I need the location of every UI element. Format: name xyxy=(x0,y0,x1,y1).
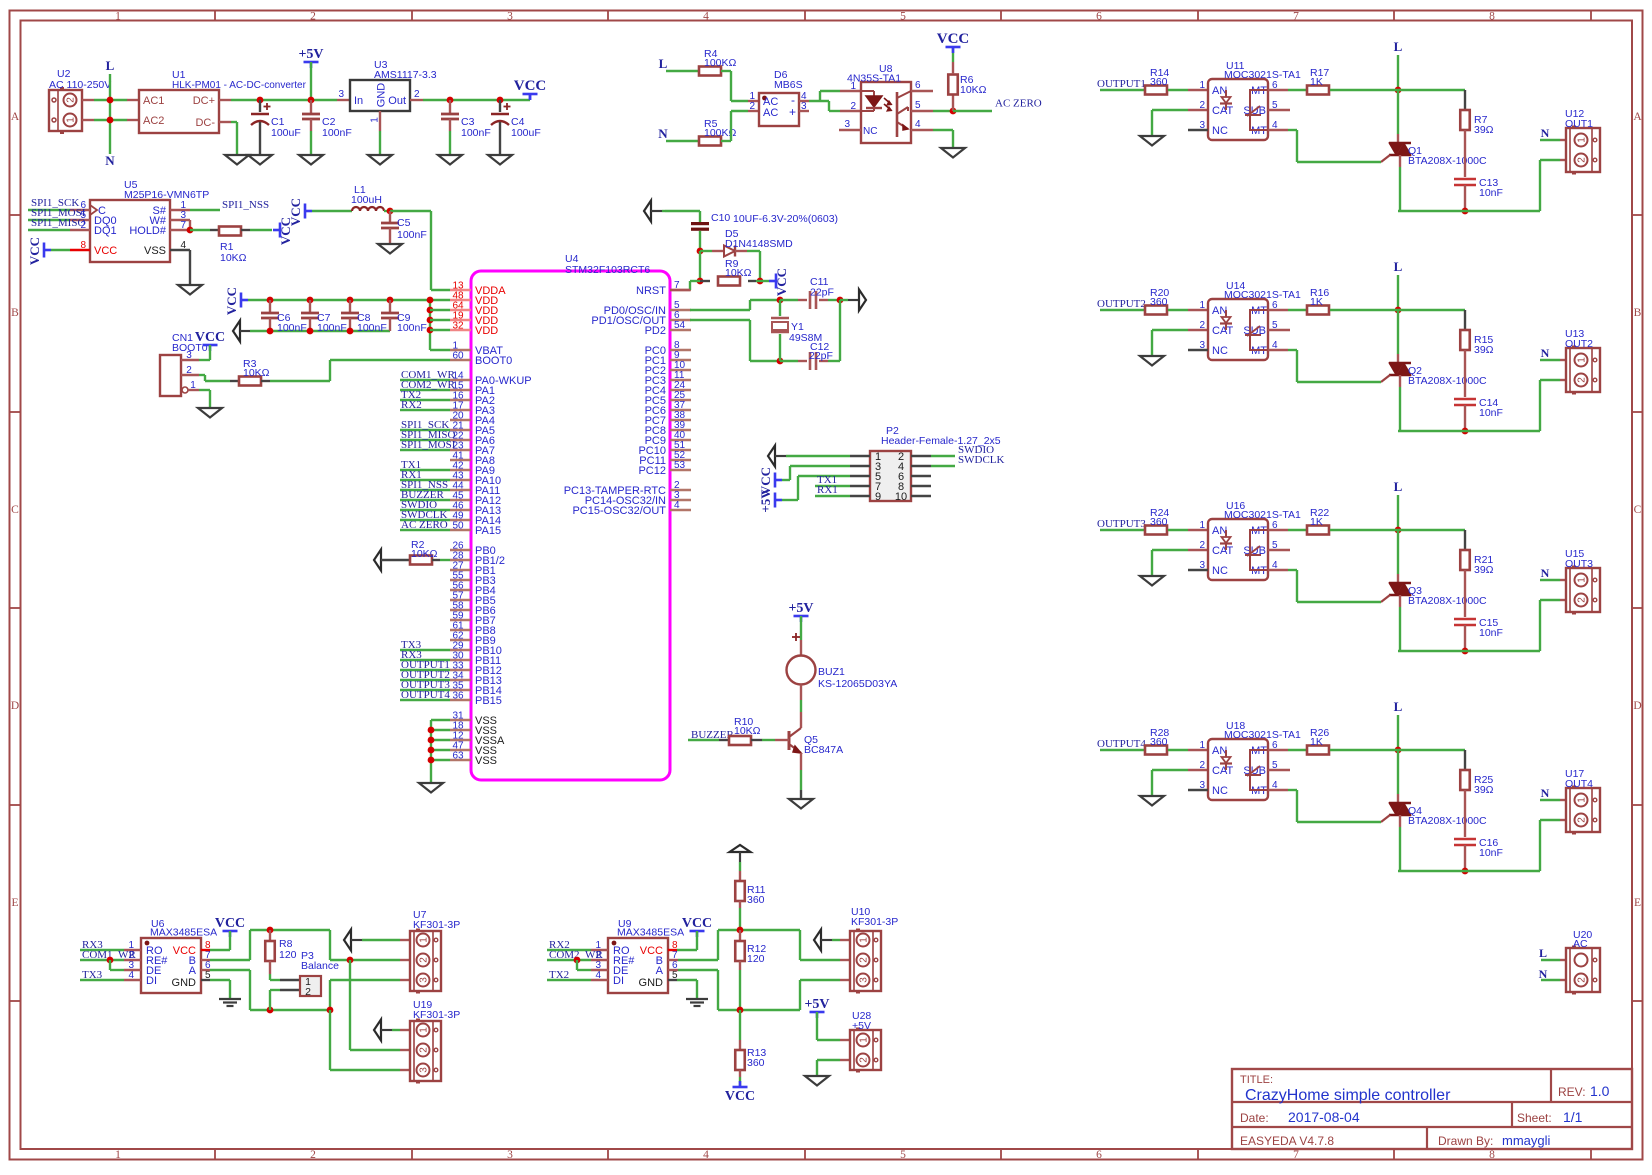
svg-text:L: L xyxy=(659,56,668,71)
svg-text:PC12: PC12 xyxy=(638,465,666,477)
svg-text:BC847A: BC847A xyxy=(804,744,843,756)
wire net COM2_WR xyxy=(400,389,450,391)
svg-text:VSS: VSS xyxy=(144,245,166,257)
svg-text:N: N xyxy=(658,126,668,141)
svg-text:2: 2 xyxy=(1199,100,1205,111)
net flag VCC xyxy=(523,93,538,96)
wire crystal right xyxy=(837,297,844,304)
wire R3 to BOOT0 xyxy=(261,380,270,382)
svg-text:2: 2 xyxy=(186,365,192,376)
svg-text:360: 360 xyxy=(1150,736,1168,748)
resistor R25 39ohm xyxy=(1330,749,1465,751)
ground C5 xyxy=(378,244,402,254)
resistor R16 1K xyxy=(1268,309,1288,311)
capacitor C14 10nF xyxy=(1454,398,1476,401)
svg-text:BOOT0: BOOT0 xyxy=(475,355,512,367)
svg-text:N: N xyxy=(1541,346,1550,360)
svg-text:10KΩ: 10KΩ xyxy=(411,548,438,560)
svg-text:1: 1 xyxy=(1199,300,1205,311)
ground Q5 xyxy=(789,799,813,809)
pin U4.1 VBAT xyxy=(450,349,471,351)
wire net SWDCLK xyxy=(400,519,450,521)
svg-text:OUTPUT4: OUTPUT4 xyxy=(401,689,450,701)
wire net BUZZER xyxy=(400,499,450,501)
resistor R20 360 xyxy=(1145,306,1167,315)
svg-text:6: 6 xyxy=(1096,11,1102,23)
pin U4.21 PA5 xyxy=(450,429,471,431)
pin U4.37 PC6 xyxy=(670,409,691,411)
pin U4.15 PA1 xyxy=(450,389,471,391)
svg-text:5: 5 xyxy=(900,11,906,23)
svg-text:8: 8 xyxy=(1489,11,1495,23)
wire P3 to U19 xyxy=(329,1010,331,1070)
svg-text:100nF: 100nF xyxy=(461,127,491,139)
ground U8 xyxy=(941,148,965,158)
wire U3 out to VCC xyxy=(410,99,423,101)
svg-text:GND: GND xyxy=(376,83,388,108)
resistor R5 100K xyxy=(699,137,721,146)
svg-text:100nF: 100nF xyxy=(277,322,307,334)
svg-text:L: L xyxy=(1539,946,1547,960)
net flag VCC U6 xyxy=(223,930,238,933)
pin U4.38 PC7 xyxy=(670,419,691,421)
svg-text:63: 63 xyxy=(453,751,465,762)
svg-text:BTA208X-1000C: BTA208X-1000C xyxy=(1408,155,1487,167)
svg-text:OUT2: OUT2 xyxy=(1565,338,1593,350)
wire cap bottom rail xyxy=(250,330,390,332)
svg-text:PB15: PB15 xyxy=(475,695,502,707)
svg-text:10KΩ: 10KΩ xyxy=(960,84,987,96)
pin U4.57 PB5 xyxy=(450,599,471,601)
svg-text:1.0: 1.0 xyxy=(1590,1083,1610,1099)
pin U9.8 VCC xyxy=(668,949,677,951)
ground U11 xyxy=(1140,136,1164,146)
svg-text:100uF: 100uF xyxy=(271,127,301,139)
svg-text:+5V: +5V xyxy=(298,47,323,62)
header P2 Header-Female-1.27_2x5 xyxy=(870,451,911,501)
svg-text:L: L xyxy=(1394,39,1403,54)
resistor R28 360 xyxy=(1145,746,1167,755)
connector U19 KF301-3P xyxy=(374,1020,381,1041)
svg-text:VCC: VCC xyxy=(725,1089,755,1104)
svg-text:2: 2 xyxy=(1199,760,1205,771)
svg-text:4: 4 xyxy=(703,11,709,23)
svg-text:1: 1 xyxy=(1577,577,1588,583)
optocoupler U11 MOC3021S-TA1 xyxy=(1188,89,1208,91)
svg-text:2: 2 xyxy=(414,89,420,100)
pin U4.63 VSS xyxy=(450,759,471,761)
pin U11.3 NC stub xyxy=(1188,129,1208,131)
svg-text:C: C xyxy=(1634,504,1642,516)
svg-text:MAX3485ESA: MAX3485ESA xyxy=(617,927,684,939)
svg-text:GND: GND xyxy=(172,977,197,989)
svg-text:2: 2 xyxy=(419,1047,430,1053)
wire U9 B net xyxy=(668,959,678,961)
connector U15 OUT3 xyxy=(1560,579,1566,581)
svg-text:4: 4 xyxy=(703,1149,709,1161)
pin U8.4 to ground xyxy=(911,129,933,131)
svg-text:2: 2 xyxy=(310,1149,316,1161)
svg-text:AC 110-250V: AC 110-250V xyxy=(49,79,111,91)
svg-text:53: 53 xyxy=(674,460,686,471)
resistor R6 10K xyxy=(950,108,957,115)
svg-text:OUT4: OUT4 xyxy=(1565,778,1593,790)
svg-text:2017-08-04: 2017-08-04 xyxy=(1288,1109,1360,1125)
svg-text:10KΩ: 10KΩ xyxy=(243,367,270,379)
svg-text:1: 1 xyxy=(850,81,856,92)
wire net SPI1_SCK xyxy=(400,429,450,431)
svg-text:OUTPUT3: OUTPUT3 xyxy=(1097,518,1146,530)
svg-text:10: 10 xyxy=(895,491,907,503)
pin U4.17 PA3 xyxy=(450,409,471,411)
transistor Q5 BC847A xyxy=(800,712,802,728)
capacitor C9 100nF xyxy=(387,297,394,304)
connector U13 OUT2 xyxy=(1560,359,1566,361)
svg-text:GND: GND xyxy=(639,977,664,989)
svg-text:CAT: CAT xyxy=(1212,325,1233,337)
svg-text:8: 8 xyxy=(1489,1149,1495,1161)
capacitor C8 100nF xyxy=(347,297,354,304)
svg-text:2: 2 xyxy=(1199,320,1205,331)
pin U4.46 PA13 xyxy=(450,509,471,511)
svg-text:BTA208X-1000C: BTA208X-1000C xyxy=(1408,375,1487,387)
pin U4.10 PC2 xyxy=(670,369,691,371)
pin U4.44 PA11 xyxy=(450,489,471,491)
pin U4.42 PA9 xyxy=(450,469,471,471)
svg-text:E: E xyxy=(1634,897,1641,909)
resistor R1 10K xyxy=(170,229,190,231)
wire net OUTPUT4 xyxy=(400,699,450,701)
svg-text:HOLD#: HOLD# xyxy=(129,225,167,237)
svg-text:KF301-3P: KF301-3P xyxy=(851,916,898,928)
svg-text:AC1: AC1 xyxy=(143,95,164,107)
pin U4.18 VSS xyxy=(450,729,471,731)
svg-text:1: 1 xyxy=(859,937,870,943)
svg-text:7: 7 xyxy=(1293,11,1299,23)
pin U4.39 PC8 xyxy=(670,429,691,431)
ground C2 xyxy=(299,155,323,165)
svg-text:2: 2 xyxy=(859,957,870,963)
pin U4.25 PC5 xyxy=(670,399,691,401)
svg-text:+5V: +5V xyxy=(804,997,829,1012)
wire C10 top xyxy=(665,210,700,212)
resistor R21 39ohm xyxy=(1330,529,1465,531)
svg-text:Sheet:: Sheet: xyxy=(1517,1111,1552,1125)
wire net AC ZERO xyxy=(400,529,450,531)
wire PD1 to crystal xyxy=(690,319,750,321)
svg-text:10nF: 10nF xyxy=(1479,187,1503,199)
net flag VCC U9 xyxy=(690,930,705,933)
pin U4.5 PD0/OSC/IN xyxy=(670,309,691,311)
svg-text:10KΩ: 10KΩ xyxy=(725,267,752,279)
svg-text:KF301-3P: KF301-3P xyxy=(413,919,460,931)
wire net SPI1_MISO xyxy=(400,439,450,441)
ground CN1 xyxy=(198,408,222,418)
ground C4 xyxy=(488,155,512,165)
wire U11 pin4 to gate xyxy=(1268,129,1288,131)
svg-text:+5V: +5V xyxy=(852,1020,871,1032)
wire U2 to U1 xyxy=(82,99,94,101)
svg-text:39Ω: 39Ω xyxy=(1474,784,1494,796)
svg-text:D1N4148SMD: D1N4148SMD xyxy=(725,238,793,250)
svg-text:32: 32 xyxy=(453,321,465,332)
title block xyxy=(1232,1069,1632,1149)
svg-text:1: 1 xyxy=(66,117,77,123)
svg-text:A: A xyxy=(11,111,20,123)
ground U5 xyxy=(178,285,202,295)
svg-text:2: 2 xyxy=(419,957,430,963)
svg-text:L: L xyxy=(1394,479,1403,494)
svg-text:MB6S: MB6S xyxy=(774,79,803,91)
svg-text:D: D xyxy=(11,700,19,712)
svg-text:AMS1117-3.3: AMS1117-3.3 xyxy=(374,69,437,81)
wire net TX2 xyxy=(400,399,450,401)
pin U4.35 PB14 xyxy=(450,689,471,691)
wire net SWDIO xyxy=(400,509,450,511)
wire BUZ1 to Q5 xyxy=(800,700,802,712)
capacitor C12 22pF xyxy=(780,360,798,362)
wire PD0 to crystal xyxy=(690,309,750,311)
svg-text:2: 2 xyxy=(1577,377,1588,383)
buzzer BUZ1 KS-12065D03YA xyxy=(792,636,800,638)
wire U18 CAT to ground xyxy=(1152,769,1188,771)
svg-text:L: L xyxy=(1394,699,1403,714)
svg-text:9: 9 xyxy=(875,491,881,503)
svg-text:1K: 1K xyxy=(1310,516,1323,528)
resistor R11 360 xyxy=(739,862,741,871)
svg-text:DI: DI xyxy=(146,975,157,987)
net flag VCC R13 xyxy=(733,1086,748,1089)
svg-text:CAT: CAT xyxy=(1212,545,1233,557)
svg-text:10nF: 10nF xyxy=(1479,627,1503,639)
svg-text:C5: C5 xyxy=(397,217,411,229)
pin U4.59 PB7 xyxy=(450,619,471,621)
svg-text:5: 5 xyxy=(915,100,921,111)
net flag VCC P2 xyxy=(774,473,777,488)
pin U4.36 PB15 xyxy=(450,699,471,701)
svg-text:SPI1_MISO: SPI1_MISO xyxy=(31,217,85,229)
pin U4.11 PC3 xyxy=(670,379,691,381)
resistor R7 39ohm xyxy=(1330,89,1465,91)
ground U14 xyxy=(1140,356,1164,366)
svg-text:VCC: VCC xyxy=(27,237,42,265)
svg-text:Balance: Balance xyxy=(301,960,339,972)
svg-text:39Ω: 39Ω xyxy=(1474,124,1494,136)
svg-text:3: 3 xyxy=(507,1149,513,1161)
wire NRST node xyxy=(699,251,701,281)
svg-text:2: 2 xyxy=(1577,977,1588,983)
svg-text:1: 1 xyxy=(1199,740,1205,751)
net flag VCC CN1 xyxy=(203,344,218,347)
svg-text:OUT3: OUT3 xyxy=(1565,558,1593,570)
svg-text:VDD: VDD xyxy=(475,325,498,337)
svg-text:10UF-6.3V-20%(0603): 10UF-6.3V-20%(0603) xyxy=(733,213,838,225)
connector U2 AC input xyxy=(49,90,82,131)
svg-text:VSS: VSS xyxy=(475,755,497,767)
svg-text:100nF: 100nF xyxy=(322,127,352,139)
svg-text:AC ZERO: AC ZERO xyxy=(401,519,448,531)
svg-text:10KΩ: 10KΩ xyxy=(734,725,761,737)
pin U4.61 PB8 xyxy=(450,629,471,631)
inductor L1 100uH xyxy=(352,207,384,211)
svg-text:NC: NC xyxy=(1212,345,1228,357)
pin U4.31 VSS xyxy=(450,719,471,721)
pin U4.9 PC1 xyxy=(670,359,691,361)
ground U28 xyxy=(805,1076,829,1086)
connector U17 OUT4 xyxy=(1560,799,1566,801)
svg-text:VCC: VCC xyxy=(774,268,789,296)
wire AC ZERO xyxy=(953,110,992,112)
svg-text:NRST: NRST xyxy=(636,285,666,297)
svg-text:VCC: VCC xyxy=(514,78,547,94)
svg-text:39Ω: 39Ω xyxy=(1474,344,1494,356)
svg-text:PC15-OSC32/OUT: PC15-OSC32/OUT xyxy=(572,505,666,517)
ground U6 xyxy=(219,998,241,1000)
svg-text:8: 8 xyxy=(80,240,86,251)
svg-text:7: 7 xyxy=(180,220,186,231)
svg-text:REV:: REV: xyxy=(1558,1085,1586,1099)
svg-text:A: A xyxy=(1633,111,1642,123)
pin U9.5 GND xyxy=(668,979,677,981)
svg-text:6: 6 xyxy=(915,80,921,91)
svg-text:4: 4 xyxy=(180,240,186,251)
svg-text:100KΩ: 100KΩ xyxy=(704,57,737,69)
svg-text:2: 2 xyxy=(1199,540,1205,551)
svg-text:RX2: RX2 xyxy=(401,399,422,411)
svg-text:M25P16-VMN6TP: M25P16-VMN6TP xyxy=(124,189,209,201)
svg-text:1K: 1K xyxy=(1310,76,1323,88)
svg-text:DC+: DC+ xyxy=(193,95,215,107)
svg-text:BTA208X-1000C: BTA208X-1000C xyxy=(1408,815,1487,827)
wire DC+ rail xyxy=(219,99,231,101)
svg-text:AC: AC xyxy=(763,107,778,119)
svg-text:MOC3021S-TA1: MOC3021S-TA1 xyxy=(1224,729,1301,741)
connector U10 KF301-3P xyxy=(814,930,821,951)
wire U14 CAT to ground xyxy=(1152,329,1188,331)
svg-text:2: 2 xyxy=(749,101,755,112)
svg-text:DQ1: DQ1 xyxy=(94,225,117,237)
wire SWDCLK xyxy=(931,465,955,467)
resistor R12 120 xyxy=(737,927,744,934)
ground chevron R11 xyxy=(730,845,751,852)
wire SPI1_MOSI xyxy=(70,219,90,221)
pin U4.32 VDD xyxy=(450,329,471,331)
resistor R8 120 xyxy=(267,927,274,934)
ground U4 VSS xyxy=(419,783,443,793)
svg-text:3: 3 xyxy=(844,119,850,130)
ground C1 xyxy=(248,155,272,165)
svg-text:+: + xyxy=(789,105,796,119)
svg-text:1: 1 xyxy=(190,380,196,391)
capacitor C3 100nF xyxy=(447,97,454,104)
capacitor C7 100nF xyxy=(307,297,314,304)
svg-text:360: 360 xyxy=(1150,76,1168,88)
wire U11 CAT to ground xyxy=(1152,109,1188,111)
wire net RX2 xyxy=(400,409,450,411)
svg-text:2: 2 xyxy=(1577,157,1588,163)
svg-text:3: 3 xyxy=(507,11,513,23)
svg-text:A: A xyxy=(656,965,664,977)
svg-text:Drawn By:: Drawn By: xyxy=(1438,1134,1493,1148)
svg-text:HLK-PM01 - AC-DC-converter: HLK-PM01 - AC-DC-converter xyxy=(172,80,307,91)
svg-text:2: 2 xyxy=(66,97,77,103)
pin U18.3 NC stub xyxy=(1188,789,1208,791)
svg-text:+5V: +5V xyxy=(788,601,813,616)
pin U4.54 PD2 xyxy=(670,329,691,331)
wire SPI1_SCK xyxy=(70,209,90,211)
wire VDD bus xyxy=(429,300,431,350)
svg-text:N: N xyxy=(1541,566,1550,580)
net flag VCC L1 xyxy=(304,204,307,219)
pin U5 VCC 8 xyxy=(70,249,90,251)
svg-text:22pF: 22pF xyxy=(809,350,833,362)
svg-text:CAT: CAT xyxy=(1212,765,1233,777)
svg-text:100nF: 100nF xyxy=(357,322,387,334)
pin U8.6 xyxy=(911,90,933,92)
svg-text:VCC: VCC xyxy=(94,245,117,257)
wire net RX1 xyxy=(400,479,450,481)
wire U14 pin4 to gate xyxy=(1268,349,1288,351)
svg-text:BTA208X-1000C: BTA208X-1000C xyxy=(1408,595,1487,607)
capacitor C15 10nF xyxy=(1454,618,1476,621)
svg-text:NC: NC xyxy=(1212,125,1228,137)
ground chevron C10 xyxy=(644,201,651,222)
triac Q3 BTA208X-1000C xyxy=(1397,530,1399,574)
pin U4.19 VDD xyxy=(450,319,471,321)
pin U3 GND xyxy=(379,111,381,131)
resistor R13 360 xyxy=(739,1010,741,1040)
svg-text:100nF: 100nF xyxy=(397,229,427,241)
pin U14.3 NC stub xyxy=(1188,349,1208,351)
wire net OUTPUT3 xyxy=(400,689,450,691)
svg-text:OUTPUT1: OUTPUT1 xyxy=(1097,78,1146,90)
svg-text:100uH: 100uH xyxy=(351,194,382,206)
svg-text:NC: NC xyxy=(1212,565,1228,577)
net flag VCC U5 xyxy=(43,243,46,258)
svg-text:1/1: 1/1 xyxy=(1563,1109,1583,1125)
svg-text:KF301-3P: KF301-3P xyxy=(413,1009,460,1021)
svg-text:VCC: VCC xyxy=(215,916,245,931)
svg-text:1: 1 xyxy=(1199,80,1205,91)
svg-text:1: 1 xyxy=(370,117,381,123)
svg-text:RX1: RX1 xyxy=(817,484,838,496)
svg-text:1K: 1K xyxy=(1310,736,1323,748)
svg-text:1: 1 xyxy=(115,1149,121,1161)
optocoupler U16 MOC3021S-TA1 xyxy=(1188,529,1208,531)
svg-text:22pF: 22pF xyxy=(810,287,834,299)
svg-text:2: 2 xyxy=(310,11,316,23)
svg-text:120: 120 xyxy=(279,949,297,961)
svg-text:STM32F103RCT6: STM32F103RCT6 xyxy=(565,264,650,276)
svg-text:360: 360 xyxy=(1150,516,1168,528)
svg-text:3: 3 xyxy=(338,89,344,100)
pin U4.3 PC14-OSC32/IN xyxy=(670,499,691,501)
wire U6 B net xyxy=(201,959,210,961)
svg-text:4: 4 xyxy=(674,500,680,511)
svg-text:10KΩ: 10KΩ xyxy=(220,252,247,264)
svg-text:VCC: VCC xyxy=(937,31,970,47)
svg-text:MOC3021S-TA1: MOC3021S-TA1 xyxy=(1224,289,1301,301)
wire net RX3 xyxy=(400,659,450,661)
svg-text:In: In xyxy=(354,95,363,107)
pin U4.56 PB4 xyxy=(450,589,471,591)
pin U4.16 PA2 xyxy=(450,399,471,401)
optocoupler U14 MOC3021S-TA1 xyxy=(1188,309,1208,311)
pin U6.5 GND xyxy=(201,979,210,981)
svg-text:A: A xyxy=(189,965,197,977)
svg-text:C: C xyxy=(11,504,19,516)
svg-text:3: 3 xyxy=(419,1067,430,1073)
